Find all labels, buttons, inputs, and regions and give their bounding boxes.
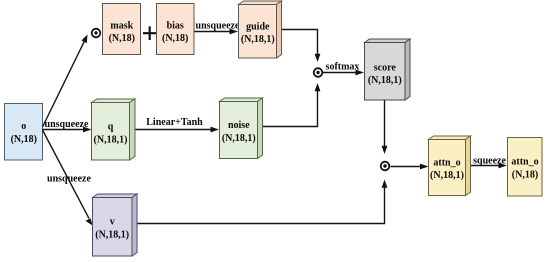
cube v	[93, 194, 138, 256]
svg-text:(N,18,1): (N,18,1)	[222, 133, 256, 144]
wire score to multiply circle C	[382, 100, 388, 154]
box bias	[157, 4, 195, 55]
arrow C to attn_o	[391, 164, 429, 170]
multiply circle A	[92, 29, 101, 38]
svg-text:(N,18,1): (N,18,1)	[430, 170, 464, 181]
box o	[5, 104, 43, 161]
cube guide	[239, 1, 282, 58]
svg-text:softmax: softmax	[326, 62, 360, 73]
arrow squeeze attn_o to attn_o2	[471, 163, 507, 169]
cube noise	[220, 98, 263, 159]
svg-text:unsqueeze: unsqueeze	[196, 21, 240, 32]
arrow o to q	[43, 127, 92, 133]
svg-text:(N,18): (N,18)	[11, 134, 37, 145]
svg-text:bias: bias	[167, 21, 184, 32]
wire noise to multiply circle B	[263, 83, 320, 127]
svg-text:score: score	[374, 63, 397, 74]
wire guide to multiply circle B	[282, 30, 320, 63]
arrow o to v	[43, 130, 93, 226]
arrow bias to guide	[195, 29, 239, 35]
svg-text:(N,18,1): (N,18,1)	[368, 75, 402, 86]
wire v to multiply circle C	[138, 180, 388, 224]
svg-text:guide: guide	[246, 22, 270, 33]
svg-text:(N,18,1): (N,18,1)	[94, 135, 128, 146]
svg-text:noise: noise	[228, 120, 250, 131]
cube score	[365, 39, 411, 100]
svg-text:unsqueeze: unsqueeze	[45, 119, 89, 130]
svg-text:q: q	[108, 122, 114, 133]
svg-text:o: o	[21, 121, 26, 132]
svg-text:(N,18,1): (N,18,1)	[95, 230, 129, 241]
svg-text:unsqueeze: unsqueeze	[47, 174, 91, 185]
svg-text:(N,18): (N,18)	[162, 33, 188, 44]
multiply circle C	[381, 162, 390, 171]
svg-text:(N,18,1): (N,18,1)	[241, 34, 275, 45]
multiply circle B	[314, 68, 323, 77]
cube attn_o	[429, 136, 471, 196]
svg-text:mask: mask	[110, 21, 133, 32]
svg-text:(N,18): (N,18)	[512, 170, 538, 181]
box mask	[103, 4, 141, 55]
arrow q to noise	[136, 127, 220, 133]
wire o to multiply circle A	[43, 35, 88, 128]
cube q	[92, 99, 136, 160]
box attn_o2	[508, 138, 543, 197]
svg-text:Linear+Tanh: Linear+Tanh	[146, 117, 203, 128]
svg-text:v: v	[110, 217, 115, 228]
plus sign	[143, 26, 156, 40]
svg-text:attn_o: attn_o	[433, 158, 460, 169]
arrow softmax B to score	[323, 70, 364, 76]
svg-text:attn_o: attn_o	[511, 157, 538, 168]
svg-text:(N,18): (N,18)	[109, 33, 135, 44]
